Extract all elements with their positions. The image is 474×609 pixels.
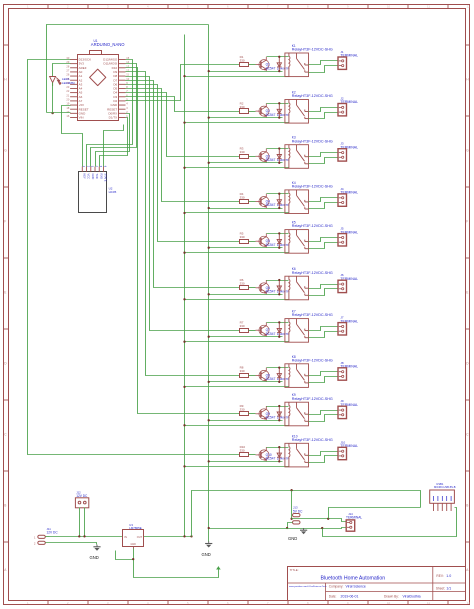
svg-text:A: A (466, 568, 469, 572)
svg-text:D: D (466, 362, 469, 366)
svg-text:TERMINAL: TERMINAL (346, 515, 362, 519)
wire 12V branch ch3 (185, 167, 289, 169)
wire collector line ch4 (267, 193, 289, 195)
svg-text:F: F (4, 220, 6, 224)
wire relay K5 COM contact to terminal (309, 243, 339, 249)
node regulator out riser (190, 535, 192, 537)
module U2 pin numbers (82, 166, 106, 168)
wire emitter line ch10 (209, 461, 283, 463)
svg-text:10: 10 (387, 5, 391, 9)
svg-text:BC547: BC547 (266, 203, 276, 207)
arduino pin numbers right (126, 56, 129, 118)
wire arduino pin to R9 (126, 68, 240, 414)
wire collector line ch6 (267, 280, 289, 282)
wire collector line ch8 (267, 367, 289, 369)
wire gnd bus vertical (208, 25, 210, 542)
resistor R3 (240, 155, 249, 159)
svg-text:B: B (4, 504, 6, 508)
wire relay K3 NO contact to terminal (309, 153, 339, 157)
node 12V branch ch2 (183, 121, 185, 123)
arduino pin stubs right (119, 60, 126, 118)
node diode bottom ch10 (278, 460, 280, 462)
svg-text:RelayHT3F-12VDC-SHG: RelayHT3F-12VDC-SHG (292, 313, 333, 317)
arduino pin numbers left (66, 56, 69, 118)
transistor Q7 (256, 322, 270, 336)
node diode top ch10 (278, 446, 280, 448)
node emitter-gndbus ch3 (208, 162, 210, 164)
resistor R2 (240, 109, 249, 114)
connector J11 (38, 535, 46, 544)
svg-text:12V DC: 12V DC (47, 531, 59, 535)
node emitter-gndbus ch4 (208, 207, 210, 209)
diode D5 (277, 233, 281, 247)
wire emitter line ch4 (209, 208, 283, 210)
svg-text:330: 330 (240, 235, 245, 239)
node diode bottom ch3 (278, 162, 280, 164)
wire emitter line ch3 (209, 162, 283, 164)
node emitter-gndbus ch6 (208, 293, 210, 295)
arduino pin names right (103, 58, 118, 120)
svg-text:HC05: HC05 (109, 190, 117, 194)
wire arduino pin to R2 (126, 97, 240, 112)
wire 12V branch ch10 (185, 466, 289, 468)
relay K1 (285, 53, 309, 77)
node diode top ch7 (278, 321, 280, 323)
wire arduino pin to R6 (126, 81, 240, 288)
svg-text:Sheet:: Sheet: (436, 586, 445, 590)
diode D4 (277, 194, 281, 208)
svg-text:BC547: BC547 (266, 457, 276, 461)
wire relay K10 COM contact to terminal (309, 456, 339, 463)
svg-text:2: 2 (34, 543, 36, 546)
wire U3 gnd loop (134, 549, 219, 578)
svg-text:20: 20 (66, 98, 69, 102)
wire collector line ch9 (267, 406, 289, 408)
connector USB1 (430, 490, 455, 511)
svg-text:STATE: STATE (104, 174, 108, 182)
diode D2 (277, 103, 281, 117)
node J13 pin2 gnd (286, 527, 288, 529)
svg-text:1: 1 (34, 536, 36, 539)
wire collector line ch5 (267, 233, 289, 235)
transistor Q1 (256, 57, 270, 71)
wire 12V branch ch2 (185, 122, 289, 124)
svg-text:10: 10 (387, 601, 391, 605)
svg-text:23: 23 (66, 85, 69, 89)
svg-text:12: 12 (467, 5, 471, 9)
svg-text:www.youtube.com/c/ViralScience: www.youtube.com/c/ViralScience-Tech (289, 585, 327, 588)
node emitter-gndbus ch2 (208, 116, 210, 118)
svg-text:330: 330 (240, 150, 245, 154)
node 12V branch ch5 (183, 252, 185, 254)
terminal J6 (338, 280, 347, 292)
svg-text:330: 330 (240, 58, 245, 62)
wire relay K7 NO contact to terminal (309, 327, 339, 331)
wire relay K1 COM contact to terminal (309, 66, 339, 73)
node emitter-gndbus ch10 (208, 460, 210, 462)
svg-text:330: 330 (240, 324, 245, 328)
svg-text:BC547: BC547 (266, 66, 276, 70)
connector J12 (75, 498, 88, 508)
svg-text:12: 12 (467, 601, 471, 605)
node 12V branch ch1 (183, 75, 185, 77)
resistor R10 (240, 453, 249, 457)
wire J12 pin2 down (84, 508, 86, 537)
svg-text:Viral Science: Viral Science (346, 584, 366, 588)
wire arduino pin to R4 (126, 89, 240, 202)
svg-text:1.0: 1.0 (446, 574, 451, 578)
svg-text:ViralDodhia: ViralDodhia (403, 594, 421, 598)
title block outer box (288, 567, 466, 601)
wire emitter line ch9 (209, 420, 283, 422)
wire gnd stub left (116, 551, 134, 560)
node J13 pin1 to 5V line (290, 518, 292, 520)
node emitter-gndbus ch1 (208, 70, 210, 72)
svg-text:330: 330 (240, 408, 245, 412)
node diode bottom ch6 (278, 293, 280, 295)
node diode bottom ch9 (278, 419, 280, 421)
diode D9 (277, 406, 281, 420)
wire 5V line to J14 (292, 519, 347, 522)
diode D1 (277, 57, 281, 71)
svg-text:C: C (4, 433, 7, 437)
node J12 pin2 (83, 535, 85, 537)
wire relay K9 COM contact to terminal (309, 415, 339, 422)
wire 12V branch ch8 (185, 386, 289, 388)
module U2 pin stubs (82, 167, 103, 172)
node emitter-gndbus ch9 (208, 419, 210, 421)
node diode top ch3 (278, 147, 280, 149)
svg-text:BC547: BC547 (266, 290, 276, 294)
svg-text:BC547: BC547 (266, 113, 276, 117)
svg-text:BC547: BC547 (266, 332, 276, 336)
wire 12V branch ch7 (185, 341, 289, 343)
gnd symbol J13 (288, 528, 307, 541)
svg-text:D: D (4, 362, 7, 366)
svg-text:IN: IN (124, 535, 127, 539)
svg-text:RelayHT3F-12VDC-SHG: RelayHT3F-12VDC-SHG (292, 139, 333, 143)
node 12V branch ch7 (183, 341, 185, 343)
svg-text:27: 27 (66, 69, 69, 73)
gnd symbol main bus (202, 541, 213, 557)
svg-text:TITLE:: TITLE: (290, 568, 299, 572)
svg-text:RelayHT3F-12VDC-SHG: RelayHT3F-12VDC-SHG (292, 358, 333, 362)
svg-text:KEY: KEY (82, 174, 86, 179)
svg-text:330: 330 (240, 195, 245, 199)
wire 12V branch ch6 (185, 299, 289, 301)
terminal J3 (338, 149, 347, 161)
wire usb riser (329, 508, 421, 519)
terminal J7 (338, 323, 347, 335)
wire R4 to Q4 base (249, 201, 256, 203)
svg-text:26: 26 (66, 73, 69, 77)
diode D7 (277, 322, 281, 336)
wire relay K6 NO contact to terminal (309, 285, 339, 289)
svg-text:D1/TX: D1/TX (109, 116, 118, 120)
svg-text:BC547: BC547 (266, 158, 276, 162)
wire arduino D13 to R10 (28, 60, 240, 455)
terminal J4 (338, 194, 347, 206)
wire relay K4 NO contact to terminal (309, 198, 339, 202)
node diode bottom ch7 (278, 336, 280, 338)
svg-text:11: 11 (427, 601, 430, 605)
wire gnd top rail (47, 25, 209, 113)
node J12 pin1 (78, 535, 80, 537)
transistor Q6 (256, 280, 270, 294)
svg-text:LED3MM: LED3MM (62, 81, 75, 85)
wire R3 to Q3 base (249, 156, 256, 158)
wire J11 pin1 to regulator line (46, 536, 50, 538)
relay K4 (285, 190, 309, 214)
svg-text:G: G (4, 149, 7, 153)
resistor R6 (240, 286, 249, 290)
wire R10 to Q10 base (249, 454, 256, 456)
wire gnd loop arrow end (216, 566, 221, 569)
node diode top ch2 (278, 102, 280, 104)
relay K7 (285, 319, 309, 343)
terminal J1 (338, 57, 347, 69)
svg-text:H: H (466, 78, 469, 82)
resistor R5 (240, 240, 249, 244)
terminal J8 (338, 368, 347, 380)
svg-text:BC547: BC547 (266, 243, 276, 247)
svg-text:RelayHT3F-12VDC-SHG: RelayHT3F-12VDC-SHG (292, 224, 333, 228)
diode D6 (277, 280, 281, 294)
node 12V branch ch4 (183, 212, 185, 214)
wire J11 pin2 to gnd (46, 543, 97, 545)
relay K9 (285, 402, 309, 426)
wire 12V input line (50, 536, 123, 538)
wire emitter line ch2 (209, 117, 283, 119)
svg-text:3: 3 (126, 106, 128, 110)
regulator U3 LM7805 (123, 530, 144, 547)
svg-text:GND: GND (202, 552, 211, 557)
svg-text:21: 21 (66, 93, 69, 97)
terminal J2 (338, 104, 347, 116)
resistor R9 (240, 412, 249, 416)
module U2 HC05 body (79, 172, 107, 213)
svg-text:4: 4 (126, 102, 128, 106)
wire relay K2 NO contact to terminal (309, 108, 339, 112)
arduino diamond logo (90, 69, 106, 86)
node 12V branch ch3 (183, 167, 185, 169)
wire regulator OUT line (144, 536, 192, 538)
diode D10 (277, 447, 281, 461)
svg-text:GND: GND (90, 555, 99, 560)
svg-text:28: 28 (66, 64, 69, 68)
title block dividers (287, 567, 465, 601)
svg-text:330: 330 (240, 282, 245, 286)
node 12V bus to input line (183, 535, 185, 537)
svg-text:VCC: VCC (87, 174, 91, 180)
svg-text:F: F (466, 220, 468, 224)
node emitter-gndbus ch7 (208, 336, 210, 338)
relay K8 (285, 364, 309, 388)
svg-text:Company:: Company: (329, 584, 344, 588)
node diode bottom ch4 (278, 207, 280, 209)
arduino pin names left (79, 58, 92, 120)
relay K2 (285, 100, 309, 124)
gnd symbol J11 (90, 545, 101, 560)
svg-text:RXD: RXD (99, 174, 103, 180)
wire 12V branch ch4 (185, 212, 289, 214)
wire 5V riser (192, 491, 421, 537)
svg-text:A: A (4, 568, 7, 572)
wire relay K8 COM contact to terminal (309, 377, 339, 383)
node gnd bus tap (208, 527, 210, 529)
svg-text:RelayHT3F-12VDC-SHG: RelayHT3F-12VDC-SHG (292, 94, 333, 98)
wire emitter line ch7 (209, 336, 283, 338)
wire relay K5 NO contact to terminal (309, 238, 339, 242)
svg-text:Date:: Date: (329, 594, 337, 598)
transistor Q4 (256, 194, 270, 208)
connector J13 (293, 514, 301, 525)
svg-text:MICRO-USB-5S-B: MICRO-USB-5S-B (434, 485, 456, 489)
arduino pin stubs left (70, 60, 77, 118)
wire 12V branch ch9 (185, 425, 289, 427)
wire 5V branch to J13 (291, 491, 293, 519)
svg-text:Drawn By:: Drawn By: (384, 594, 399, 598)
wire D0/RX to HC05 pin4 (96, 114, 130, 167)
module U1 arduino nano body (78, 55, 119, 121)
wire collector line ch2 (267, 103, 289, 105)
module U2 pin names (82, 174, 107, 182)
wire arduino pin to R7 (126, 77, 240, 331)
node usb riser (327, 518, 329, 520)
wire R2 to Q2 base (249, 111, 256, 113)
wire 12V branch ch1 (185, 76, 289, 78)
node 12V branch ch6 (183, 298, 185, 300)
node diode top ch6 (278, 279, 280, 281)
wire collector line ch3 (267, 148, 289, 150)
diode D3 (277, 149, 281, 163)
svg-text:GND: GND (288, 536, 297, 541)
svg-text:Bluetooth Home Automation: Bluetooth Home Automation (321, 575, 386, 581)
wire emitter line ch1 (209, 71, 283, 73)
svg-text:19: 19 (66, 102, 69, 106)
node emitter-gndbus ch8 (208, 381, 210, 383)
svg-text:G: G (466, 149, 469, 153)
svg-text:18: 18 (66, 106, 69, 110)
svg-text:RelayHT3F-12VDC-SHG: RelayHT3F-12VDC-SHG (292, 271, 333, 275)
relay K6 (285, 276, 309, 300)
svg-text:BC547: BC547 (266, 416, 276, 420)
svg-text:TXD: TXD (95, 174, 99, 179)
node diode top ch5 (278, 232, 280, 234)
wire arduino pin to R5 (126, 85, 240, 242)
wire R9 to Q9 base (249, 413, 256, 415)
wire collector line ch1 (267, 56, 289, 58)
node diode top ch4 (278, 193, 280, 195)
svg-text:16: 16 (66, 114, 69, 118)
wire R6 to Q6 base (249, 287, 256, 289)
node 12V branch ch9 (183, 424, 185, 426)
wire emitter line ch6 (209, 294, 283, 296)
wire relay K6 COM contact to terminal (309, 289, 339, 296)
svg-text:RelayHT3F-12VDC-SHG: RelayHT3F-12VDC-SHG (292, 438, 333, 442)
svg-text:2019-06-01: 2019-06-01 (341, 594, 359, 598)
transistor Q9 (256, 406, 270, 420)
relay K3 (285, 145, 309, 169)
svg-text:RelayHT3F-12VDC-SHG: RelayHT3F-12VDC-SHG (292, 48, 333, 52)
svg-text:E: E (466, 291, 468, 295)
wire relay K9 NO contact to terminal (309, 411, 339, 415)
wire gnd distribution line (209, 528, 347, 529)
svg-text:H: H (4, 78, 7, 82)
led LED1 (49, 77, 61, 87)
node diode bottom ch8 (278, 381, 280, 383)
svg-text:RelayHT3F-12VDC-SHG: RelayHT3F-12VDC-SHG (292, 185, 333, 189)
svg-text:17: 17 (66, 110, 69, 114)
svg-text:OUT: OUT (137, 535, 143, 539)
svg-text:VIN: VIN (79, 116, 84, 120)
wire led anode from 3V3 pin (53, 64, 71, 77)
wire J13 pin2 to gnd line (288, 523, 293, 529)
terminal J9 (338, 406, 347, 418)
svg-text:330: 330 (240, 105, 245, 109)
wire R5 to Q5 base (249, 241, 256, 243)
resistor R1 (240, 63, 249, 67)
svg-text:C: C (466, 433, 469, 437)
node 12V branch ch10 (183, 465, 185, 467)
transistor Q8 (256, 368, 270, 382)
terminal J14 (346, 520, 355, 531)
transistor Q5 (256, 233, 270, 247)
diode D8 (277, 368, 281, 382)
wire 5V to HC05 VCC (62, 106, 83, 167)
wire gnd rail to arduino GND pin (47, 112, 71, 114)
terminal J10 (338, 447, 347, 459)
wire led cathode to gnd (52, 83, 54, 114)
node diode top ch8 (278, 366, 280, 368)
wire relay K7 COM contact to terminal (309, 332, 339, 338)
node 5V to J13 branch (290, 489, 292, 491)
resistor R8 (240, 374, 249, 378)
wire R1 to Q1 base (249, 64, 256, 66)
node diode bottom ch5 (278, 247, 280, 249)
node gnd to usb shield (321, 527, 323, 529)
svg-text:ARDUINO_NANO: ARDUINO_NANO (91, 42, 125, 47)
wire arduino pin to R8 (126, 72, 240, 376)
node emitter-gndbus ch5 (208, 247, 210, 249)
svg-text:11: 11 (126, 73, 129, 77)
svg-text:1/1: 1/1 (446, 586, 451, 590)
wire arduino pin to R1 (126, 65, 240, 101)
transistor Q10 (256, 447, 270, 461)
wire emitter line ch5 (209, 247, 283, 249)
wire HC05 STATE stub (104, 125, 124, 167)
svg-text:RelayHT3F-12VDC-SHG: RelayHT3F-12VDC-SHG (292, 397, 333, 401)
svg-text:E: E (4, 291, 6, 295)
svg-text:GND: GND (91, 174, 95, 180)
transistor Q2 (256, 103, 270, 117)
node diode top ch1 (278, 56, 280, 58)
wire 12V bus vertical (184, 35, 186, 537)
node diode top ch9 (278, 405, 280, 407)
svg-text:5V DC: 5V DC (293, 509, 303, 513)
wire collector line ch7 (267, 322, 289, 324)
wire relay K10 NO contact to terminal (309, 452, 339, 456)
relay K10 (285, 443, 309, 467)
wire collector line ch10 (267, 447, 289, 449)
wire R8 to Q8 base (249, 375, 256, 377)
wire D1/TX to HC05 pin5 (100, 118, 128, 167)
svg-text:B: B (466, 504, 468, 508)
resistor R4 (240, 200, 249, 204)
svg-text:GND: GND (131, 543, 137, 546)
wire relay K8 NO contact to terminal (309, 372, 339, 376)
wire D12 to HC05 pin2 (87, 60, 133, 167)
